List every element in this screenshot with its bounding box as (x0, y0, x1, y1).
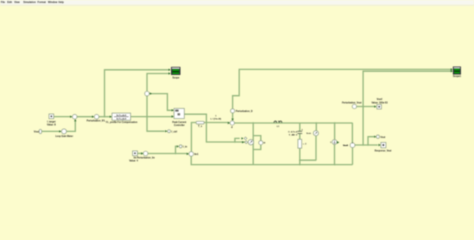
Peak Current Controller block (172, 108, 186, 126)
arrow into I_ctrl tag (165, 130, 167, 132)
load current source circle (330, 140, 349, 148)
wire switch branch vertical (252, 123, 254, 165)
wire branch to upper switch control (235, 138, 240, 142)
node J13 Vout tag branch (367, 144, 369, 146)
arrow into Iin1 sum (187, 153, 189, 155)
node J12 Vout node scope tap (362, 144, 364, 146)
wire capacitor branch (299, 123, 301, 165)
svg-text:Vout: Vout (343, 144, 348, 147)
Scope1 block (453, 67, 462, 78)
arrow into Scope1 input1 (451, 68, 453, 70)
wire Perturbation_Iin to Iin1 sum (148, 153, 188, 155)
svg-text:Scope1: Scope1 (453, 76, 462, 78)
arrow into sum1 (70, 116, 72, 118)
arrow into Perturbation_Iin (141, 152, 143, 154)
svg-text:Perturbation_D: Perturbation_D (236, 110, 253, 113)
node J5 top rail / switch branch (252, 122, 254, 124)
I_in tag (179, 145, 187, 149)
arrow into Loop Gain Meter (59, 130, 61, 132)
wire branch up to I_in tag (176, 146, 177, 153)
wire switch side loop (253, 136, 261, 150)
block I_target (constant) (47, 114, 57, 127)
svg-text:2: 2 (302, 129, 303, 131)
svg-text:Window: Window (48, 1, 57, 4)
wire load branch (334, 123, 336, 165)
svg-text:Simulation: Simulation (23, 1, 36, 4)
wire label 1/(L/(Vin-M)) (211, 115, 222, 120)
inport Vout (34, 129, 42, 133)
node J3 Iin row / I_in tag branch (175, 153, 177, 155)
svg-text:Value: 8: Value: 8 (47, 125, 57, 127)
node J7 cap branch / bottom rail (299, 164, 301, 166)
Vout oval tag (376, 135, 385, 139)
svg-text:Scope: Scope (172, 78, 180, 80)
Iin1 sum circle (189, 152, 199, 157)
svg-text:Vrsh: Vrsh (306, 133, 311, 135)
svg-text:View: View (14, 1, 20, 4)
Iin constant block (129, 151, 139, 163)
node J4 switch control branch (234, 141, 236, 143)
svg-text:r_C: r_C (303, 144, 307, 146)
arrow into switch lower control (242, 141, 244, 143)
svg-text:I_ctrl: I_ctrl (171, 130, 177, 133)
svg-text:Controller: Controller (174, 124, 185, 127)
node J2 main row / I_ctrl branch (146, 116, 148, 118)
wire Perturbation_D node to Scope1 input1 (233, 69, 453, 108)
svg-text:Format: Format (38, 1, 46, 4)
arrow into Response_Vout (379, 144, 381, 146)
arrow into switch upper control (241, 137, 243, 139)
Response_Vout block (375, 142, 392, 152)
svg-text:C: 4.7e-6: C: 4.7e-6 (288, 130, 298, 133)
svg-text:Vout: Vout (34, 130, 40, 134)
svg-text:Edit: Edit (7, 1, 12, 4)
wire vertical through node to I_ctrl tag (147, 96, 165, 131)
wire connector cap to source (300, 159, 317, 161)
arrow down into d-hat sum top (231, 119, 233, 121)
svg-text:Iin1: Iin1 (194, 154, 199, 156)
sum1 circle (72, 114, 77, 119)
wire tap up to Scope input1 (105, 70, 171, 117)
svg-text:I_target: I_target (47, 120, 56, 123)
Vout sensor circle (343, 142, 355, 147)
wire circle D to PCC input1 (149, 94, 173, 111)
T_s gain block (196, 121, 204, 128)
svg-text:I_in: I_in (183, 145, 188, 148)
arrow out of circle D (150, 92, 152, 94)
wire Perturbation_IFL to TF block (99, 116, 111, 118)
Vout value block (371, 98, 388, 109)
svg-text:Perturbation_IFL: Perturbation_IFL (87, 119, 106, 122)
svg-text:Vout!: Vout! (377, 98, 383, 101)
Scope block (171, 67, 180, 79)
svg-text:Perturbation_Iin: Perturbation_Iin (137, 157, 155, 160)
capacitor C plates (297, 131, 302, 133)
arrow into PCC input2 (172, 115, 174, 117)
wire PCC output down to switch control (184, 114, 245, 142)
node J1 scope tap on main row (104, 116, 106, 118)
wire top rail (234, 123, 352, 143)
arrow into Vout value block (374, 105, 376, 107)
arrow into I_in tag (177, 145, 179, 147)
switch source circle 1 (248, 140, 253, 145)
Perturbation_D circle (231, 109, 253, 113)
svg-text:5e7s+4e9: 5e7s+4e9 (116, 118, 127, 121)
svg-text:Help: Help (59, 1, 65, 4)
Perturbation_Iin circle (137, 151, 155, 160)
arrow into Vout tag (374, 136, 376, 138)
svg-text:Vout: Vout (380, 136, 385, 139)
wire Iin block to Perturbation_Iin (138, 152, 143, 154)
resistor r_C (298, 129, 307, 148)
wire source branch (315, 123, 317, 160)
svg-text:T_s: T_s (198, 125, 203, 128)
wire Vout sensor to Response_Vout (355, 144, 378, 146)
svg-text:Value: 100e-03: Value: 100e-03 (371, 102, 388, 104)
wire Vout inport to Loop Gain Meter (42, 130, 61, 132)
wire Loop Gain Meter up to sum1 (66, 120, 75, 132)
I_ctrl tag (168, 130, 178, 134)
node J10 load branch / bottom rail (334, 164, 336, 166)
arrow into Scope1 input2 (451, 70, 453, 72)
arrow into PCC input1 (172, 109, 174, 111)
arrow into Perturbation_IFL (92, 116, 94, 118)
svg-text:L / (Vin-M): L / (Vin-M) (211, 119, 222, 121)
Perturbation_Vout circle (342, 101, 362, 108)
svg-text:Loop Gain Meter: Loop Gain Meter (55, 135, 73, 138)
node J11 Perturbation_Vout injection (362, 106, 364, 108)
svg-text:File: File (1, 1, 6, 4)
node J6 cap-source connector (299, 159, 301, 161)
circle node D (measurement) (145, 91, 150, 96)
wire TF to Peak Current Controller input2 (131, 116, 174, 118)
Loop Gain Meter circle (55, 129, 73, 138)
wire Vout node up to Scope1 input2 (363, 71, 452, 145)
source V circle (306, 131, 318, 136)
inductor L1 on top rail (274, 121, 282, 128)
node J8 top rail / source branch (316, 122, 318, 124)
TF compensation block (106, 113, 138, 124)
svg-text:Value: 4: Value: 4 (129, 160, 139, 163)
capacitor labels (288, 130, 298, 136)
wire Iin1 sum up to T_s (191, 123, 195, 152)
d-hat sum circle (230, 121, 234, 129)
arrow into d-hat sum (228, 122, 230, 124)
svg-text:V_AB: 0: V_AB: 0 (289, 133, 298, 136)
wire branch up to Vout tag (368, 137, 374, 145)
arrow into TF block (110, 116, 112, 118)
wire circle D up to Scope input2 (147, 74, 170, 92)
wire bottom rail (191, 148, 352, 165)
wire Perturbation_D down to d-hat sum (232, 113, 234, 120)
wire T_s to d-hat sum (204, 122, 229, 124)
arrow into Scope input1 (169, 69, 171, 71)
Perturbation_IFL circle (87, 114, 106, 122)
svg-text:Perturbation_Vout: Perturbation_Vout (342, 101, 362, 104)
svg-text:Peak Current: Peak Current (172, 121, 186, 124)
wire I_target to sum1 (54, 116, 72, 118)
node J9 top rail / load branch (334, 122, 336, 124)
menu bar (0, 0, 474, 6)
wire Perturbation_Vout to value block (357, 106, 376, 108)
wire sum1 to Perturbation_IFL (77, 116, 94, 118)
svg-text:Response_Vout: Response_Vout (375, 149, 392, 152)
svg-text:FL_profile For Compensation: FL_profile For Compensation (106, 121, 138, 124)
switch source circle 2 (259, 141, 266, 145)
arrow up into sum1 bottom (74, 119, 76, 121)
arrow into Scope input2 (169, 72, 171, 74)
